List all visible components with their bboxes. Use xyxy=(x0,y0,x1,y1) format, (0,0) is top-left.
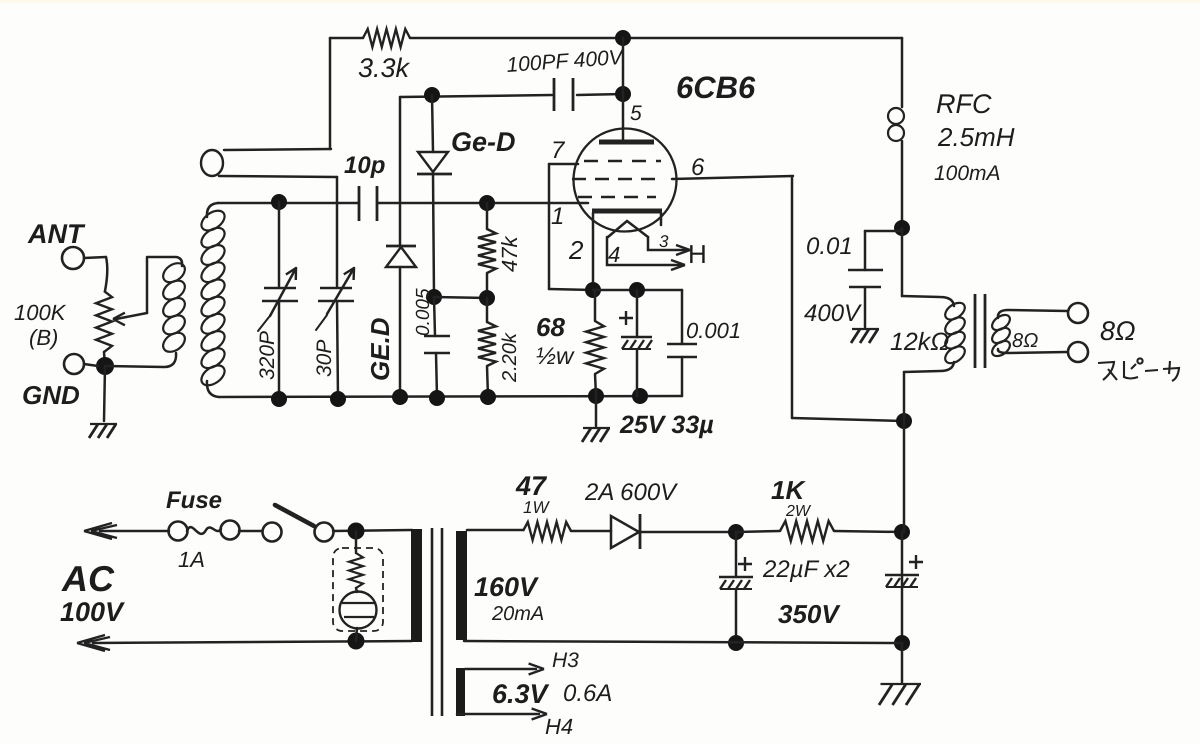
svg-text:160V: 160V xyxy=(474,572,539,602)
svg-text:0.001: 0.001 xyxy=(686,318,741,343)
svg-text:2: 2 xyxy=(568,235,584,265)
svg-text:0.6A: 0.6A xyxy=(563,680,612,707)
svg-text:3.3k: 3.3k xyxy=(358,53,411,83)
svg-text:25V 33µ: 25V 33µ xyxy=(619,411,714,439)
svg-text:6: 6 xyxy=(691,154,705,181)
svg-text:4: 4 xyxy=(608,242,620,267)
svg-text:5: 5 xyxy=(630,102,642,125)
svg-text:8Ω: 8Ω xyxy=(1100,316,1136,346)
svg-text:6.3V: 6.3V xyxy=(492,679,550,709)
svg-text:0.005: 0.005 xyxy=(413,288,434,336)
svg-text:1: 1 xyxy=(551,203,564,230)
svg-text:AC: AC xyxy=(61,558,115,599)
svg-text:1W: 1W xyxy=(523,498,550,517)
svg-text:30P: 30P xyxy=(313,340,336,377)
svg-text:ANT: ANT xyxy=(27,219,86,249)
svg-text:Ge-D: Ge-D xyxy=(451,127,516,157)
svg-text:H3: H3 xyxy=(552,649,579,672)
svg-text:(B): (B) xyxy=(29,325,58,350)
svg-text:350V: 350V xyxy=(778,599,841,629)
svg-text:2A 600V: 2A 600V xyxy=(584,479,678,506)
svg-text:6CB6: 6CB6 xyxy=(676,70,756,105)
svg-text:H4: H4 xyxy=(545,714,573,739)
svg-text:1A: 1A xyxy=(178,547,205,572)
svg-text:3: 3 xyxy=(659,232,669,251)
svg-text:GE.D: GE.D xyxy=(365,317,395,381)
svg-text:H: H xyxy=(688,239,707,269)
svg-text:8Ω: 8Ω xyxy=(1012,330,1038,352)
svg-text:68: 68 xyxy=(536,312,565,342)
svg-text:22µF x2: 22µF x2 xyxy=(762,556,850,583)
svg-text:20mA: 20mA xyxy=(491,603,544,625)
svg-text:1K: 1K xyxy=(771,475,806,505)
svg-text:0.01: 0.01 xyxy=(806,233,853,260)
svg-text:400V: 400V xyxy=(804,300,862,327)
svg-text:7: 7 xyxy=(551,137,566,164)
svg-text:320P: 320P xyxy=(256,331,279,380)
svg-text:47k: 47k xyxy=(497,236,522,272)
svg-text:12kΩ: 12kΩ xyxy=(890,328,949,356)
svg-text:10p: 10p xyxy=(344,152,385,179)
svg-text:2.20k: 2.20k xyxy=(499,332,521,383)
svg-text:100K: 100K xyxy=(14,300,67,325)
svg-text:2.5mH: 2.5mH xyxy=(937,122,1015,152)
svg-text:Fuse: Fuse xyxy=(166,487,222,514)
svg-text:47: 47 xyxy=(515,471,548,501)
svg-text:½w: ½w xyxy=(536,343,575,370)
svg-text:GND: GND xyxy=(22,380,80,410)
svg-text:RFC: RFC xyxy=(936,89,992,119)
svg-text:2W: 2W xyxy=(785,503,812,520)
svg-text:100V: 100V xyxy=(60,597,125,627)
svg-text:100mA: 100mA xyxy=(934,162,1001,185)
